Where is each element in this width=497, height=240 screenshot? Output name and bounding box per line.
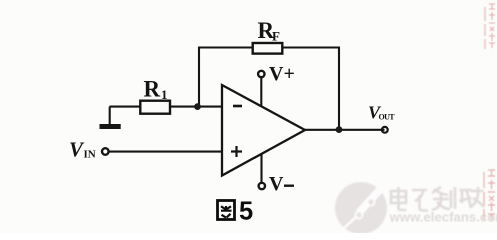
label V+ [269, 63, 295, 85]
watermark text 电子发烧友 (light gray glyph blocks) [391, 187, 484, 211]
op-amp U1 [222, 85, 305, 176]
label RF [258, 18, 281, 44]
wire: feedback right vertical [338, 47, 340, 130]
terminal V+ stub [260, 78, 262, 106]
op-amp plus sign [231, 146, 242, 157]
resistor RF [253, 43, 283, 54]
watermark logo (elecfans circle) [335, 182, 387, 234]
resistor R1 [140, 101, 170, 114]
svg-text:V: V [269, 173, 284, 195]
svg-text:V+: V+ [269, 63, 295, 85]
wire: VIN to non-inverting input [109, 151, 223, 153]
watermark corner bottom-right (vertical red) [484, 170, 495, 220]
label VIN [69, 138, 96, 162]
terminal V- circle [259, 183, 265, 189]
caption 图5 [218, 201, 235, 220]
svg-text:IN: IN [84, 149, 96, 161]
ground [109, 107, 111, 125]
wire: feedback left vertical [198, 47, 200, 107]
svg-text:www.elecfans.com: www.elecfans.com [389, 210, 497, 225]
wire: inverting input (ground to op-amp) [110, 106, 223, 108]
svg-text:R: R [144, 77, 161, 102]
node: output junction [336, 126, 343, 133]
terminal VOUT circle [382, 127, 388, 133]
terminal V- stub [260, 155, 262, 183]
terminal VIN circle [102, 148, 109, 155]
wire: output [303, 129, 385, 131]
watermark text www.elecfans.com [389, 210, 497, 225]
watermark corner top-right (vertical red) [485, 4, 495, 49]
label R1 [144, 77, 168, 103]
label V- [269, 173, 294, 195]
label VOUT [368, 103, 395, 123]
op-amp minus sign [233, 105, 242, 108]
svg-text:5: 5 [239, 198, 253, 226]
node: inverting input junction [194, 103, 201, 110]
wire: feedback top horizontal [199, 46, 339, 48]
terminal V+ circle [258, 71, 264, 77]
svg-text:1: 1 [161, 87, 168, 102]
svg-text:OUT: OUT [379, 113, 396, 122]
svg-text:F: F [272, 29, 280, 44]
